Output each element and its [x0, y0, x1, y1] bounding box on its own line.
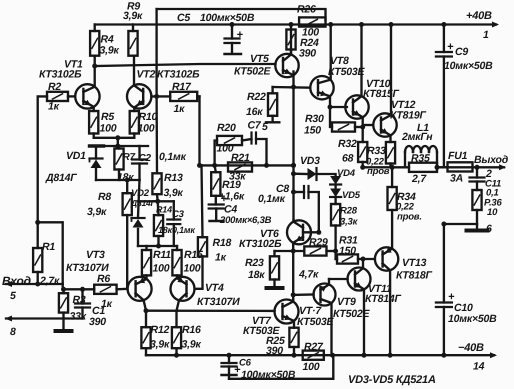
wire top bias line — [157, 9, 326, 20]
svg-text:R8: R8 — [98, 191, 111, 203]
resistor R2 — [38, 92, 68, 223]
label C11 value — [486, 188, 499, 199]
svg-text:100мк×50В: 100мк×50В — [200, 12, 255, 24]
label VT12 type — [390, 110, 427, 122]
wire bias top — [96, 144, 148, 149]
resistor R21 — [228, 162, 252, 171]
label VD3 — [300, 155, 320, 167]
resistor R22 — [266, 87, 279, 122]
svg-text:1к: 1к — [48, 101, 60, 113]
svg-text:VT3: VT3 — [86, 249, 105, 261]
svg-text:1к: 1к — [101, 298, 113, 310]
svg-text:R16: R16 — [182, 324, 201, 336]
label R34 value — [396, 202, 415, 213]
svg-text:КТ3102Б: КТ3102Б — [239, 238, 282, 250]
label VD4 — [337, 168, 356, 179]
transistor VT3 — [128, 275, 152, 310]
svg-text:8: 8 — [10, 326, 16, 338]
label terminal 6 — [486, 223, 492, 235]
label R32 — [338, 138, 357, 150]
svg-text:390: 390 — [299, 48, 316, 60]
svg-text:R14: R14 — [156, 205, 172, 215]
svg-text:R10: R10 — [139, 111, 158, 123]
label VT7b type — [297, 316, 335, 328]
label C9 — [455, 46, 468, 58]
label C5 — [177, 12, 190, 24]
label R18 — [213, 237, 232, 249]
label R8 value — [87, 206, 107, 218]
label terminal 1 — [483, 29, 489, 41]
svg-text:18к: 18к — [248, 269, 265, 281]
label C7 — [248, 120, 262, 132]
label VT1 type — [39, 69, 82, 81]
svg-text:3,9к: 3,9к — [123, 10, 143, 22]
label R23 value — [248, 269, 265, 281]
svg-text:−40В: −40В — [458, 342, 484, 354]
wire C6 bypass — [229, 355, 333, 379]
wire VT9 base — [291, 292, 314, 297]
svg-text:+: + — [237, 29, 244, 41]
resistor R30 — [330, 107, 365, 132]
label VD2 — [131, 188, 150, 199]
label VT5 type — [234, 66, 272, 78]
transistor VT4 — [171, 275, 195, 310]
svg-text:R32: R32 — [338, 138, 357, 150]
label R25 — [266, 335, 285, 347]
svg-text:10мк×50В: 10мк×50В — [444, 60, 493, 72]
wire feedback bus — [155, 9, 158, 173]
resistor R13 — [152, 173, 161, 201]
terminal 8 — [5, 316, 83, 322]
svg-text:КТ819Г: КТ819Г — [390, 110, 427, 122]
label C8 value — [258, 193, 286, 205]
resistor R5 — [89, 111, 98, 138]
svg-text:VT4: VT4 — [205, 282, 224, 294]
label VD5 — [342, 190, 361, 201]
label VT8 — [330, 55, 349, 67]
svg-text:КТ3107И: КТ3107И — [66, 262, 109, 274]
resistor R6 — [94, 285, 127, 294]
label R31 value — [339, 245, 356, 257]
label R10 value — [138, 123, 155, 135]
label R21 value — [229, 171, 246, 183]
label R29 value — [298, 269, 319, 281]
resistor R18 bus — [195, 96, 207, 288]
label terminal 8 — [10, 326, 16, 338]
svg-text:100: 100 — [303, 361, 320, 373]
label L1 — [417, 122, 429, 134]
svg-text:R6: R6 — [97, 273, 110, 285]
wire VT11 base — [329, 278, 348, 280]
svg-text:33к: 33к — [70, 311, 87, 323]
svg-text:КТ818Г: КТ818Г — [396, 270, 433, 282]
transistor VT9 — [314, 279, 336, 355]
label -40V — [458, 342, 484, 354]
wire zobel ground link — [441, 222, 477, 227]
label R27 — [304, 341, 324, 353]
capacitor C5 — [225, 22, 244, 54]
svg-text:С5: С5 — [177, 12, 190, 24]
label R7 — [123, 152, 136, 163]
resistor R9 — [128, 25, 137, 56]
svg-text:VD4: VD4 — [337, 168, 356, 179]
label VT2 type — [157, 69, 200, 81]
label R18 value — [215, 252, 227, 264]
label R35 — [411, 153, 430, 165]
transistor VT6 — [287, 220, 311, 245]
capacitor C9 — [436, 22, 454, 167]
label R19 — [222, 179, 241, 191]
label C7 value — [262, 121, 268, 133]
label R1 value — [39, 275, 60, 287]
svg-text:R21: R21 — [231, 152, 250, 164]
label VT8 type — [328, 66, 366, 78]
wire left fb jog — [35, 220, 63, 284]
label R3 value — [70, 311, 87, 323]
svg-text:КТ3102Б: КТ3102Б — [157, 69, 200, 81]
svg-text:100: 100 — [217, 143, 234, 155]
svg-text:R26: R26 — [297, 4, 316, 16]
transistor VT5 — [275, 30, 298, 88]
svg-text:С6: С6 — [239, 358, 252, 369]
label VT5 — [250, 53, 269, 65]
label R13 — [164, 172, 183, 184]
label C11 — [485, 179, 501, 190]
label R8 — [98, 191, 111, 203]
resistor R12 — [141, 308, 150, 355]
label +40V — [466, 10, 492, 22]
label R22 value — [246, 106, 263, 118]
label R15 — [184, 249, 203, 261]
svg-text:С4: С4 — [224, 204, 237, 216]
label VT10 type — [363, 88, 400, 100]
svg-text:R13: R13 — [164, 172, 183, 184]
transistor VT13 — [375, 210, 398, 355]
label R26 — [297, 4, 316, 16]
label R11 value — [153, 263, 170, 275]
svg-text:+: + — [447, 41, 454, 53]
label R32 value — [342, 153, 354, 165]
label VT13 type — [396, 270, 433, 282]
capacitor C2 — [132, 146, 147, 180]
label R23 — [245, 257, 264, 269]
svg-text:200мк×6,3В: 200мк×6,3В — [219, 215, 272, 226]
svg-text:R18: R18 — [213, 237, 232, 249]
svg-text:R2: R2 — [48, 81, 61, 93]
label C9 value — [444, 60, 493, 72]
capacitor C11 — [470, 167, 485, 190]
label R20 — [217, 122, 236, 134]
label VT4 type — [197, 296, 240, 308]
svg-text:Д814Г: Д814Г — [45, 172, 77, 184]
label R15 value — [184, 263, 201, 275]
svg-text:3А: 3А — [450, 173, 463, 185]
label R33 value — [366, 157, 385, 168]
label VT6 — [260, 228, 279, 240]
terminal -40V arrow — [490, 352, 497, 358]
wire R21 line — [197, 163, 296, 168]
transistor VT11 — [348, 259, 371, 355]
label C2 value — [159, 151, 187, 163]
label C4 — [224, 204, 237, 216]
label Vyhod — [474, 154, 509, 166]
resistor R1 — [33, 222, 42, 286]
svg-text:2мкГн: 2мкГн — [401, 131, 433, 143]
wire VT10 base — [328, 105, 347, 110]
label R13 value — [164, 187, 184, 199]
svg-text:Вход: Вход — [2, 274, 31, 288]
label R9 value — [123, 10, 143, 22]
svg-text:4,7к: 4,7к — [298, 269, 319, 281]
ground input — [56, 319, 72, 332]
svg-text:Выход: Выход — [474, 154, 509, 166]
resistor R25 — [289, 328, 298, 356]
wire VT7 base line — [146, 310, 275, 313]
label R5 value — [100, 123, 117, 135]
label C10 — [454, 302, 473, 314]
rail dots — [174, 353, 446, 358]
transistor VT2 — [127, 56, 151, 111]
svg-text:R1: R1 — [42, 241, 55, 253]
svg-text:R35: R35 — [411, 153, 430, 165]
svg-text:С9: С9 — [455, 46, 468, 58]
resistor R24 — [286, 22, 295, 55]
svg-text:VD1: VD1 — [66, 150, 86, 162]
label R24 value — [299, 48, 316, 60]
wire main bus — [291, 87, 296, 300]
svg-text:VT13: VT13 — [402, 257, 427, 269]
label VD2 type — [130, 198, 157, 208]
resistor R34 — [388, 165, 397, 210]
wire VT6 base — [303, 230, 321, 235]
label R29 — [309, 237, 328, 249]
svg-text:R29: R29 — [309, 237, 328, 249]
label C10 value — [448, 313, 497, 325]
transistor VT1 — [75, 64, 99, 112]
svg-text:1к: 1к — [215, 252, 227, 264]
label R5 — [101, 111, 114, 123]
svg-text:R17: R17 — [172, 81, 192, 93]
svg-text:0,1мк: 0,1мк — [258, 193, 286, 205]
label L1 value — [401, 131, 433, 143]
label R10 — [139, 111, 158, 123]
wire +40V top rail — [95, 23, 496, 25]
label R14 value — [158, 225, 173, 235]
svg-text:FU1: FU1 — [448, 150, 468, 162]
svg-text:VT2: VT2 — [137, 69, 156, 81]
label VT4 — [205, 282, 224, 294]
ground output — [467, 224, 488, 231]
resistor R7 — [114, 146, 123, 180]
wire VT5 base line — [95, 64, 276, 66]
label R12 — [151, 324, 170, 336]
resistor R26 in rail — [299, 17, 325, 26]
svg-text:R30: R30 — [305, 113, 324, 125]
svg-text:3,9к: 3,9к — [87, 206, 107, 218]
svg-text:18к: 18к — [158, 225, 173, 235]
resistor R14 — [154, 201, 163, 246]
label R19 value — [219, 191, 245, 203]
svg-text:Д814Г: Д814Г — [130, 198, 157, 208]
wire VD4-VD5 — [334, 185, 336, 189]
resistor R17 — [170, 92, 199, 101]
svg-text:VD3-VD5 КД521А: VD3-VD5 КД521А — [348, 374, 436, 386]
transistor VT8 — [310, 22, 333, 107]
label C6 plus — [234, 364, 241, 376]
label R35 value — [411, 173, 427, 185]
label R28 — [340, 206, 358, 217]
label VT1 — [64, 59, 83, 71]
capacitor C8 — [291, 186, 319, 232]
label VT9 type — [333, 308, 371, 320]
label R22 — [247, 91, 266, 103]
svg-text:16к: 16к — [246, 106, 263, 118]
label R17 value — [174, 103, 186, 115]
resistor R20 — [215, 136, 252, 166]
label VD1 type — [45, 172, 77, 184]
wire VD3 feed — [291, 171, 308, 176]
wire VT1 base from R2 — [68, 95, 75, 97]
transistor VT7 — [275, 300, 299, 328]
wire node R13 bottom — [138, 199, 174, 204]
label R33 note — [367, 166, 390, 177]
svg-text:R20: R20 — [217, 122, 236, 134]
wire VD3-VD4 — [317, 174, 336, 176]
svg-text:КТ502Е: КТ502Е — [234, 66, 272, 78]
label C3 value — [172, 225, 195, 235]
transistor VT12 — [373, 22, 396, 142]
label R4 — [101, 34, 114, 46]
svg-text:390: 390 — [89, 316, 106, 328]
svg-text:6: 6 — [486, 223, 492, 235]
capacitor C1 — [75, 289, 90, 318]
svg-text:R19: R19 — [222, 179, 241, 191]
resistor R23 — [270, 251, 279, 286]
svg-text:КТ814Г: КТ814Г — [365, 293, 402, 305]
resistor R16 — [172, 311, 181, 356]
label VT7 — [252, 315, 272, 327]
label R2 value — [48, 101, 60, 113]
svg-text:3,3к: 3,3к — [340, 217, 359, 228]
svg-text:14: 14 — [473, 361, 485, 373]
svg-text:100: 100 — [184, 263, 201, 275]
label C6 — [239, 358, 252, 369]
label VT7b — [299, 305, 322, 317]
terminal input 5 — [5, 281, 63, 287]
zener VD2 — [132, 180, 145, 246]
label R12 value — [150, 339, 170, 351]
label R36 — [484, 198, 502, 209]
capacitor C4 — [209, 193, 228, 221]
svg-text:R27: R27 — [304, 341, 324, 353]
svg-text:10мк×50В: 10мк×50В — [448, 313, 497, 325]
svg-text:С7: С7 — [248, 120, 262, 132]
terminal +40V arrow — [492, 22, 499, 28]
wire to fuse — [437, 166, 448, 168]
label C5 value — [200, 12, 255, 24]
label VT9 — [337, 296, 356, 308]
capacitor C10 — [436, 224, 455, 355]
svg-text:1: 1 — [483, 29, 489, 41]
resistor R15 — [172, 246, 181, 275]
svg-text:150: 150 — [339, 245, 356, 257]
svg-text:R33: R33 — [367, 145, 386, 157]
label VT3 — [86, 249, 105, 261]
label R28 value — [340, 217, 359, 228]
label VT13 — [402, 257, 427, 269]
svg-text:+40В: +40В — [466, 10, 492, 22]
wire VT6 emitter node — [275, 249, 305, 254]
label R14 — [156, 205, 172, 215]
label FU1 — [448, 150, 468, 162]
capacitor C3 — [167, 201, 180, 246]
resistor R19 — [211, 165, 220, 204]
label VT2 — [137, 69, 156, 81]
resistor R32 — [358, 142, 367, 167]
label C3 — [172, 209, 185, 220]
label R3 — [73, 294, 86, 306]
resistor R28 — [331, 197, 340, 259]
capacitor C6 — [222, 355, 237, 379]
label R30 — [305, 113, 324, 125]
label R21 — [231, 152, 250, 164]
resistor R8 — [123, 180, 132, 289]
label C1 value — [89, 316, 106, 328]
label R34 note — [397, 212, 422, 223]
label R16 — [182, 324, 201, 336]
transistor VT10 — [345, 22, 368, 142]
label C1 — [92, 305, 105, 317]
label VT7 type — [243, 325, 281, 337]
label VT6 type — [239, 238, 282, 250]
svg-text:R22: R22 — [247, 91, 266, 103]
svg-text:КТ3102Б: КТ3102Б — [39, 69, 82, 81]
resistor R29 — [304, 246, 338, 255]
resistor R3 — [59, 289, 68, 318]
svg-text:100: 100 — [138, 123, 155, 135]
wire node bottom bias — [138, 244, 177, 249]
label R17 — [172, 81, 192, 93]
svg-text:3,9к: 3,9к — [164, 187, 184, 199]
svg-text:R12: R12 — [151, 324, 170, 336]
svg-text:КТ503Е: КТ503Е — [297, 316, 335, 328]
svg-text:3,9к: 3,9к — [150, 339, 170, 351]
svg-text:R11: R11 — [153, 249, 171, 261]
resistor R35 — [409, 163, 437, 172]
resistor R4 — [90, 25, 99, 67]
svg-text:С2: С2 — [139, 153, 152, 164]
svg-text:КТ3107И: КТ3107И — [197, 296, 240, 308]
label VT12 — [391, 99, 416, 111]
label R36 value — [487, 207, 498, 218]
label R20 value — [217, 143, 234, 155]
wire VT2 base to R17 — [151, 94, 170, 99]
label VT11 type — [365, 293, 402, 305]
label C6 value — [241, 369, 296, 381]
fuse FU1 — [448, 162, 473, 171]
label VD1 — [66, 150, 86, 162]
resistor R33 — [386, 142, 395, 167]
svg-text:0,1мк: 0,1мк — [172, 225, 195, 235]
wire VT5 emitter node — [273, 85, 311, 90]
label terminal 5 — [10, 290, 16, 302]
label R25 value — [266, 345, 283, 357]
svg-text:3,9к: 3,9к — [100, 45, 120, 57]
svg-text:VT9: VT9 — [337, 296, 356, 308]
svg-text:R5: R5 — [101, 111, 114, 123]
label C4 value — [219, 215, 272, 226]
svg-text:R23: R23 — [245, 257, 264, 269]
